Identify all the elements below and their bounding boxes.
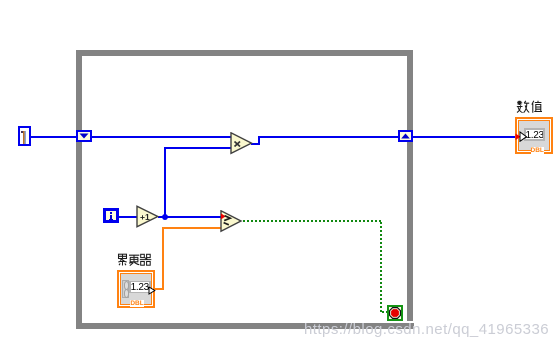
svg-text:+1: +1	[140, 212, 150, 222]
